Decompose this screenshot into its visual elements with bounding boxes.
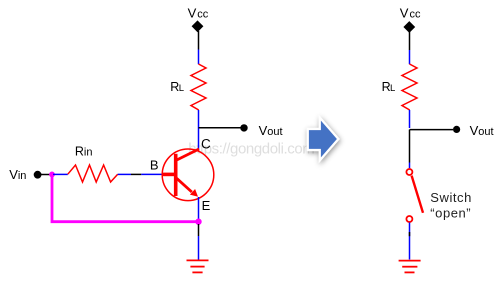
wire: junction to switch (right, black) xyxy=(409,130,411,163)
transistor Q1 base lead xyxy=(162,173,175,177)
ground (left) xyxy=(187,260,209,272)
switch top terminal xyxy=(406,169,412,175)
wire: Vcc to RL (right, blue) xyxy=(409,50,411,64)
node dot (magenta, input) xyxy=(49,172,55,178)
wire: Vcc to RL (blue part) xyxy=(198,50,200,65)
wire: collector junction to Vout dot xyxy=(199,127,242,129)
label Switch "open" xyxy=(430,190,472,220)
node Vout dot (right) xyxy=(453,126,460,133)
svg-text:“open”: “open” xyxy=(430,205,471,220)
svg-text:E: E xyxy=(202,198,211,213)
svg-text:Vcc: Vcc xyxy=(188,5,209,20)
switch bottom terminal xyxy=(406,216,412,222)
svg-text:Vcc: Vcc xyxy=(400,5,421,20)
node Vin dot (black) xyxy=(34,171,42,179)
svg-text:RL: RL xyxy=(382,80,396,94)
wire: to switch (right, blue) xyxy=(409,163,411,169)
transistor Q1 collector lead xyxy=(176,149,199,161)
wire: black dash on switch-ground wire xyxy=(409,232,411,236)
svg-text:B: B xyxy=(150,158,159,173)
transistor Q1 circle xyxy=(162,149,214,201)
wire: RL to collector (blue) xyxy=(198,110,200,150)
wire: Vin dot to magenta node xyxy=(38,174,50,176)
wire: junction to Vout dot (right) xyxy=(410,129,454,131)
wire: junction to ground (black segment) xyxy=(198,224,200,236)
svg-text:Vout: Vout xyxy=(470,123,494,138)
wire: junction to ground (blue segment) xyxy=(198,236,200,260)
transistor Q1 emitter lead with arrowhead xyxy=(177,178,199,197)
node Vout dot (left) xyxy=(240,124,247,131)
transistor Q1 base bar xyxy=(174,154,178,196)
resistor RL (right) xyxy=(402,64,417,110)
node dot (magenta, emitter junction) xyxy=(195,219,201,225)
power Vcc diamond (right) xyxy=(403,21,415,33)
wire: emitter to magenta junction (blue) xyxy=(198,197,200,221)
svg-text:Vout: Vout xyxy=(259,123,283,138)
wire: feedback magenta xyxy=(52,175,199,222)
block arrow white outline with shadow xyxy=(309,121,337,158)
svg-text:Switch: Switch xyxy=(430,190,472,205)
wire: base wire black segment xyxy=(131,173,141,175)
svg-text:Rin: Rin xyxy=(75,145,93,159)
wire: switch to ground (right, blue) xyxy=(409,223,411,260)
block arrow blue body xyxy=(309,121,337,158)
ground (right) xyxy=(399,261,421,273)
switch blade (open) xyxy=(412,176,423,213)
wire: Vcc diamond to RL (right, black) xyxy=(409,32,411,51)
resistor Rin xyxy=(68,165,118,182)
wire: RL to junction (right, blue) xyxy=(409,110,411,128)
wire: Rin to base (blue segment) xyxy=(118,173,131,175)
wire: Vcc diamond to RL (black part) xyxy=(198,31,200,50)
wire: base wire blue segment to transistor xyxy=(141,173,162,175)
power Vcc diamond (left) xyxy=(192,20,204,32)
wire: input node to Rin (blue) xyxy=(53,173,68,175)
svg-text:RL: RL xyxy=(170,80,184,94)
svg-text:Vin: Vin xyxy=(9,167,26,182)
svg-text:C: C xyxy=(201,136,211,151)
resistor RL (left) xyxy=(191,64,206,110)
